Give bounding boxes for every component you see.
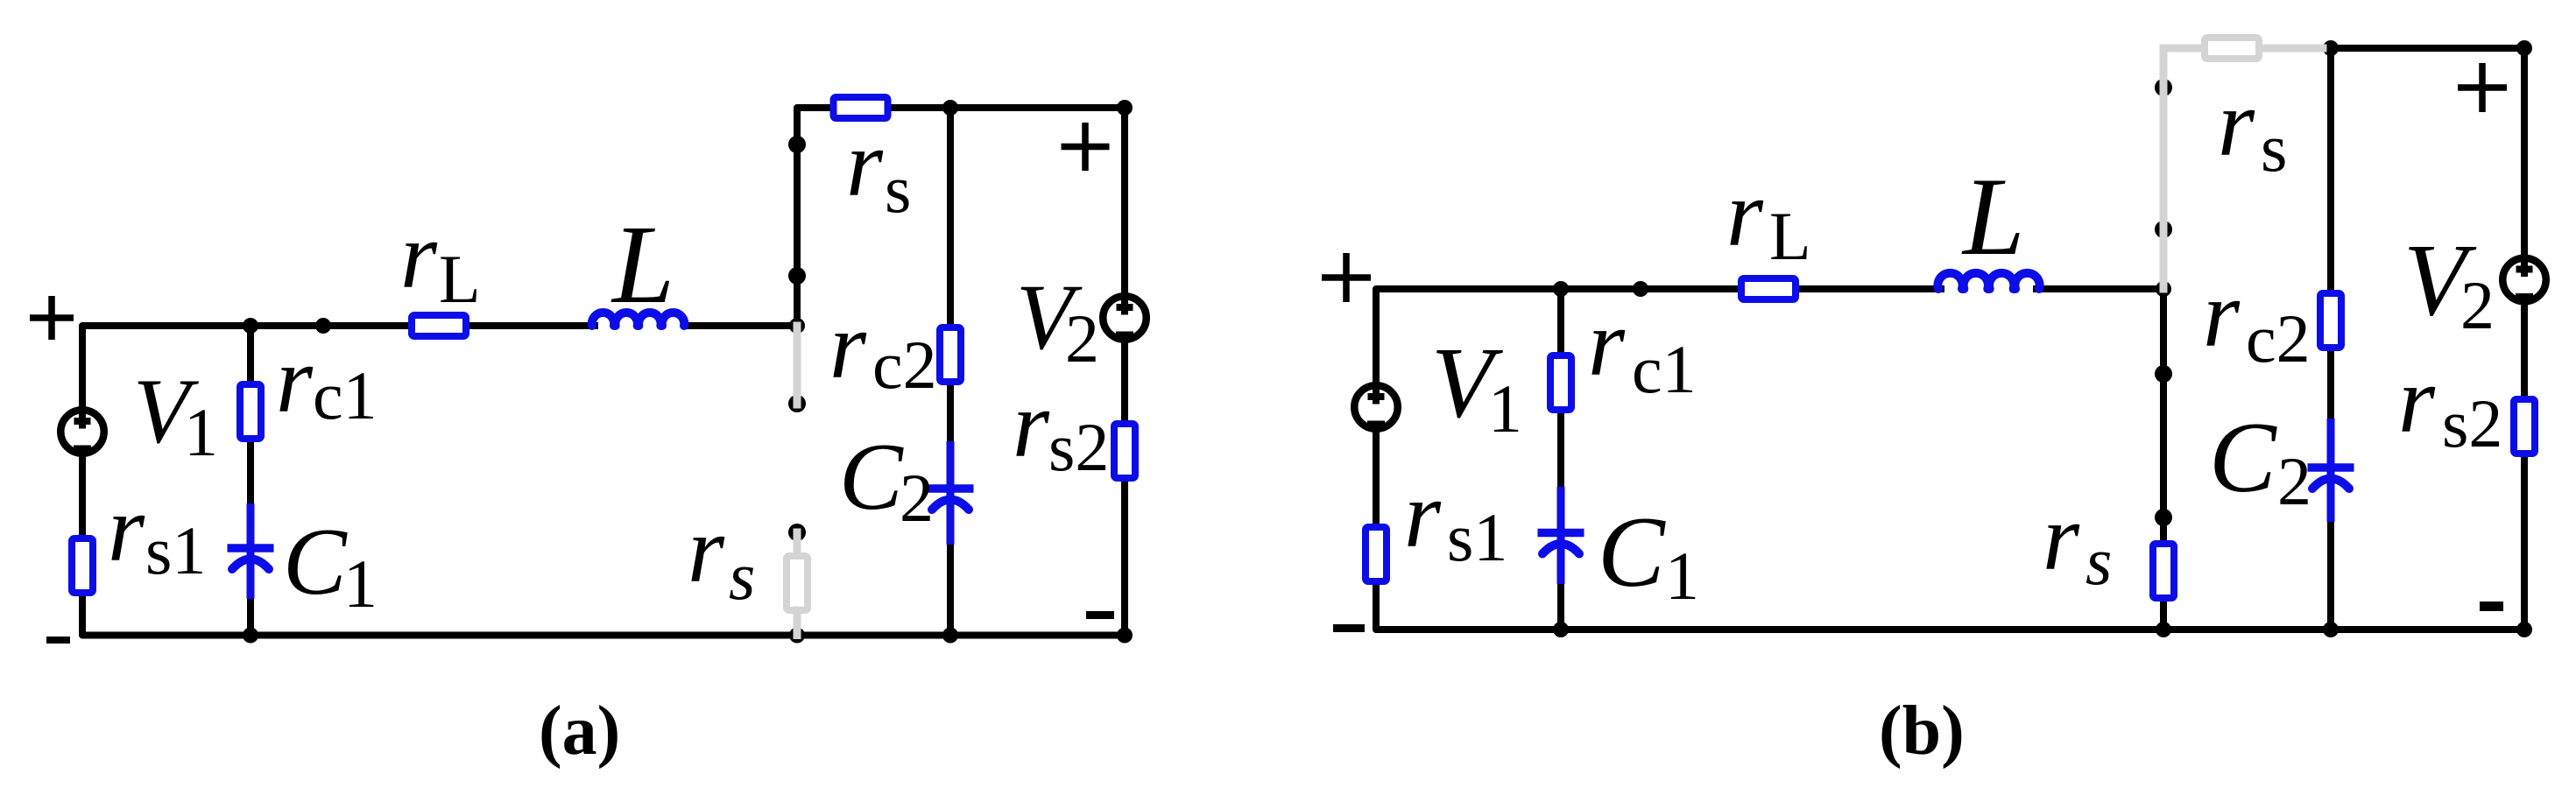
capacitor C2 (b) bbox=[2308, 419, 2354, 522]
wire (a) top rail from junction to top-left corner and down to V1 bbox=[82, 326, 595, 407]
label V2 (b) bbox=[2403, 222, 2495, 343]
node (b) bottom-right corner bbox=[2516, 622, 2532, 637]
resistor rc1 (b) bbox=[1550, 355, 1571, 410]
plus sign (a) output bbox=[1062, 123, 1110, 171]
inductor L (a) bbox=[592, 313, 684, 326]
node (a) open switch terminal upper bbox=[788, 395, 806, 412]
svg-text:r: r bbox=[2398, 348, 2436, 453]
plus sign (b) output bbox=[2458, 63, 2507, 112]
minus sign (b) input bbox=[1333, 624, 1365, 632]
label rc1 (b) bbox=[1588, 292, 1697, 407]
node (b) output corner rc2 bbox=[2323, 40, 2339, 56]
caption (a) bbox=[539, 693, 620, 770]
wire (b) rc1 to C1 bbox=[1557, 413, 1564, 487]
svg-text:s: s bbox=[729, 538, 755, 614]
label C2 (a) bbox=[839, 424, 934, 536]
wire (a) C1 to bottom rail bbox=[247, 599, 254, 636]
svg-text:r: r bbox=[1588, 292, 1626, 396]
node (a) bottom-right corner bbox=[1117, 628, 1133, 644]
wire (b) V1 to rs1 bbox=[1373, 432, 1380, 524]
wire (a) switch riser and upper rail to rs bbox=[797, 108, 830, 326]
label C2 (b) bbox=[2209, 402, 2311, 519]
svg-text:C: C bbox=[283, 509, 348, 615]
minus sign (b) output bbox=[2480, 602, 2503, 611]
wire (a) V2 to rs2 bbox=[1121, 342, 1128, 420]
wire (a) rc1 to C1 bbox=[247, 442, 254, 503]
wire (b) off-state gray riser bbox=[2160, 48, 2168, 289]
node (a) top-right corner bbox=[1117, 100, 1133, 116]
wire (a) gray stub above off-state resistor bbox=[794, 532, 801, 557]
label rs1 (a) bbox=[108, 477, 206, 588]
svg-text:1: 1 bbox=[184, 394, 218, 470]
label V2 (a) bbox=[1016, 266, 1099, 376]
wire (a) V1 to rs1 bbox=[79, 456, 86, 535]
wire (b) switch on-state riser to rs bottom bbox=[2160, 289, 2167, 540]
wire (b) gray link corner to rs bbox=[2163, 45, 2200, 53]
node (b) switch contact upper gray path bbox=[2155, 79, 2172, 96]
svg-text:C: C bbox=[839, 424, 904, 530]
label rs switch (a) bbox=[688, 498, 755, 614]
node (a) C2 bottom junction bbox=[942, 628, 958, 644]
wire (b) top rail from junction to top-left corner and down to V1 bbox=[1376, 289, 1941, 383]
label rc2 (b) bbox=[2203, 263, 2311, 376]
label rs2 (b) bbox=[2398, 348, 2502, 461]
node (b) switch bottom junction bbox=[2156, 622, 2171, 637]
resistor rs2 (b) bbox=[2514, 399, 2535, 454]
node (a) rc2 top junction bbox=[942, 100, 958, 116]
wire (b) rs bottom to bottom rail bbox=[2160, 602, 2167, 630]
svg-text:C: C bbox=[2209, 402, 2277, 513]
node (b) C1 bottom junction bbox=[1553, 622, 1569, 637]
wire (a) open-switch gray upper segment bbox=[794, 326, 801, 405]
svg-text:s: s bbox=[885, 151, 911, 227]
plus sign (a) input bbox=[30, 296, 74, 340]
svg-text:c1: c1 bbox=[1632, 331, 1697, 407]
svg-text:(a): (a) bbox=[539, 693, 620, 770]
resistor rs (a) top on-state bbox=[834, 97, 888, 118]
resistor rs (b) off-state gray bbox=[2205, 38, 2259, 59]
label rL (b) bbox=[1726, 162, 1811, 274]
svg-text:c2: c2 bbox=[872, 327, 937, 403]
svg-text:r: r bbox=[688, 498, 725, 602]
wire (a) rs1 to bottom-left corner and bottom rail to right rail bbox=[82, 596, 1125, 636]
resistor rc2 (a) bbox=[940, 327, 961, 382]
node (a) sense point on top rail bbox=[315, 318, 331, 334]
node (b) switch contact lower on-path bbox=[2155, 509, 2172, 526]
wire (b) output top rail bbox=[2331, 48, 2524, 256]
minus sign (a) input bbox=[46, 637, 70, 644]
voltage source V2 (a) bbox=[1103, 292, 1147, 340]
wire (a) coil to switch junction bbox=[686, 322, 797, 329]
node (b) switch contact upper on-path bbox=[2155, 365, 2172, 383]
wire (a) rc1 branch top bbox=[247, 326, 254, 381]
resistor rs2 (a) bbox=[1114, 424, 1135, 478]
svg-text:1: 1 bbox=[1488, 370, 1522, 447]
svg-text:r: r bbox=[829, 294, 867, 398]
node (b) L junction at switch bbox=[2156, 281, 2171, 297]
node (a) L junction at switch bbox=[789, 318, 805, 334]
svg-text:2: 2 bbox=[2460, 267, 2495, 343]
wire (a) rc2 branch top bbox=[947, 108, 954, 324]
label C1 (b) bbox=[1598, 496, 1699, 614]
wire (b) C2 to bottom rail bbox=[2327, 522, 2334, 630]
wire (a) rs to top-right corner and down to V2 bbox=[891, 108, 1125, 293]
node (a) switch bottom junction bbox=[789, 628, 805, 644]
node (b) top-right corner bbox=[2516, 40, 2532, 56]
svg-text:c2: c2 bbox=[2246, 300, 2311, 376]
wire (a) gray stub below off-state resistor bbox=[794, 610, 801, 636]
svg-text:r: r bbox=[846, 112, 884, 216]
node (a) open switch terminal lower bbox=[788, 524, 806, 541]
node (b) rc1 top junction bbox=[1553, 281, 1569, 297]
caption (b) bbox=[1879, 693, 1965, 770]
svg-text:L: L bbox=[1769, 198, 1811, 274]
label rL (a) bbox=[400, 204, 481, 317]
node (a) C1 bottom junction bbox=[243, 628, 258, 644]
voltage source V1 (a) bbox=[60, 405, 104, 454]
wire (b) rc2 to C2 bbox=[2327, 351, 2334, 419]
label L (a) bbox=[610, 202, 674, 327]
wire (a) C2 to bottom rail bbox=[947, 545, 954, 636]
capacitor C2 (a) bbox=[928, 441, 974, 545]
svg-text:r: r bbox=[1404, 463, 1442, 567]
svg-text:C: C bbox=[1598, 496, 1666, 608]
wire (b) rs1 to bottom-left corner and bottom rail to right rail bbox=[1376, 585, 2524, 630]
svg-text:s: s bbox=[2086, 523, 2112, 599]
svg-text:r: r bbox=[1726, 162, 1764, 266]
resistor rs1 (a) bbox=[72, 538, 93, 593]
svg-text:2: 2 bbox=[1065, 300, 1099, 376]
capacitor C1 (b) bbox=[1538, 487, 1584, 584]
wire (b) V2 to rs2 bbox=[2521, 305, 2528, 397]
svg-text:r: r bbox=[276, 328, 314, 433]
label rc1 (a) bbox=[276, 328, 378, 433]
resistor rs (a) off-state gray bbox=[787, 556, 808, 610]
label rc2 (a) bbox=[829, 294, 937, 403]
wire (a) rc2 to C2 bbox=[947, 385, 954, 441]
capacitor C1 (a) bbox=[228, 503, 274, 599]
label rs top (a) bbox=[846, 112, 911, 227]
node (a) switch contact upper bbox=[788, 136, 806, 153]
resistor rs (b) on-state bbox=[2153, 544, 2174, 598]
plus sign (b) input bbox=[1322, 253, 1371, 302]
label rs2 (a) bbox=[1013, 373, 1109, 485]
label rs1 (b) bbox=[1404, 463, 1507, 575]
svg-text:r: r bbox=[2218, 72, 2255, 176]
svg-text:s1: s1 bbox=[145, 512, 206, 588]
node (b) sense point on top rail bbox=[1633, 281, 1648, 297]
wire (b) rs2 to bottom-right corner bbox=[2521, 457, 2528, 630]
svg-text:s1: s1 bbox=[1447, 499, 1507, 575]
voltage source V2 (b) bbox=[2502, 254, 2546, 302]
label V1 (a) bbox=[133, 360, 218, 470]
svg-text:s: s bbox=[2261, 109, 2287, 186]
node (a) rc1 top junction bbox=[243, 318, 258, 334]
label rs top (b) bbox=[2218, 72, 2287, 186]
wire (b) rc1 branch top bbox=[1557, 289, 1564, 352]
minus sign (a) output bbox=[1086, 611, 1114, 619]
wire (b) rc2 branch from output corner bbox=[2327, 48, 2334, 290]
label L (b) bbox=[1961, 156, 2025, 278]
inductor L (b) bbox=[1937, 273, 2039, 289]
svg-text:r: r bbox=[2203, 263, 2241, 367]
svg-text:1: 1 bbox=[343, 545, 378, 622]
svg-text:s2: s2 bbox=[1048, 409, 1109, 485]
wire (b) C1 to bottom rail bbox=[1557, 584, 1564, 630]
svg-text:2: 2 bbox=[2277, 443, 2311, 519]
svg-text:s2: s2 bbox=[2442, 385, 2502, 461]
node (b) C2 bottom junction bbox=[2323, 622, 2339, 637]
svg-text:L: L bbox=[1961, 156, 2025, 278]
resistor rc2 (b) bbox=[2320, 293, 2341, 348]
svg-text:L: L bbox=[610, 202, 674, 327]
svg-text:r: r bbox=[400, 204, 438, 308]
wire (a) rs2 to bottom-right corner bbox=[1121, 482, 1128, 636]
svg-text:1: 1 bbox=[1665, 538, 1699, 614]
svg-text:c1: c1 bbox=[313, 357, 378, 433]
svg-text:r: r bbox=[108, 477, 145, 581]
svg-text:2: 2 bbox=[900, 460, 934, 536]
wire (b) gray link rs to output corner bbox=[2263, 45, 2323, 53]
resistor rL (b) bbox=[1741, 278, 1796, 299]
resistor rL (a) bbox=[412, 315, 466, 336]
svg-text:r: r bbox=[2043, 486, 2080, 590]
label C1 (a) bbox=[283, 509, 378, 622]
node (b) switch contact lower gray path bbox=[2155, 221, 2172, 238]
voltage source V1 (b) bbox=[1354, 381, 1398, 429]
svg-text:(b): (b) bbox=[1879, 693, 1965, 770]
label rs switch (b) bbox=[2043, 486, 2112, 599]
resistor rs1 (b) bbox=[1366, 527, 1387, 581]
svg-text:L: L bbox=[439, 241, 481, 317]
wire (b) coil to switch junction bbox=[2036, 285, 2163, 292]
label V1 (b) bbox=[1431, 327, 1522, 447]
node (a) switch contact lower bbox=[788, 267, 806, 285]
svg-text:r: r bbox=[1013, 373, 1050, 477]
resistor rc1 (a) bbox=[240, 384, 261, 439]
